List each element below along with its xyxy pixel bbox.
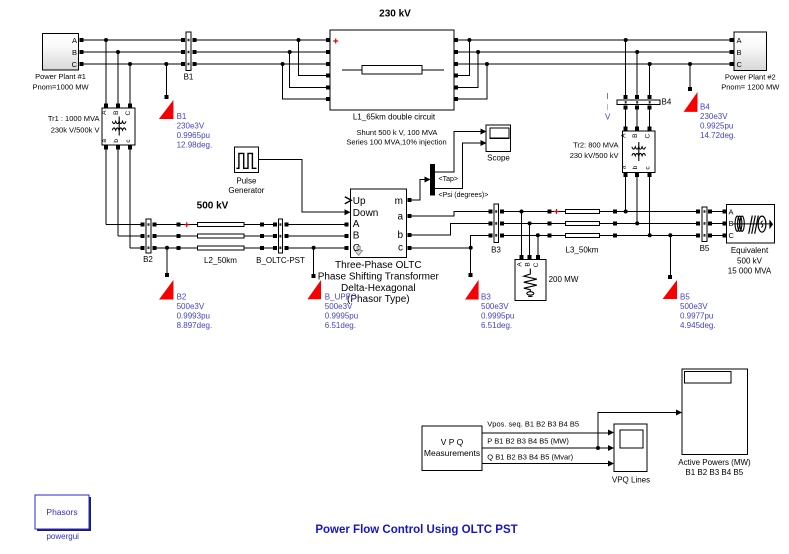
svg-text:L3_50km: L3_50km: [566, 245, 599, 254]
svg-text:b: b: [632, 165, 639, 169]
svg-text:4.945deg.: 4.945deg.: [680, 321, 716, 330]
svg-text:B: B: [729, 219, 734, 228]
svg-text:Three-Phase OLTC: Three-Phase OLTC: [335, 260, 422, 271]
svg-text:Measurements: Measurements: [424, 448, 480, 458]
svg-text:230 kV/500 kV: 230 kV/500 kV: [570, 151, 619, 160]
svg-text:500e3V: 500e3V: [177, 302, 205, 311]
svg-text:A: A: [729, 207, 734, 216]
svg-text:0.9995pu: 0.9995pu: [325, 311, 358, 320]
svg-text:b: b: [113, 139, 120, 143]
svg-text:Shunt 500 k V, 100 MVA: Shunt 500 k V, 100 MVA: [357, 128, 438, 137]
svg-text:A: A: [517, 262, 524, 267]
svg-text:B: B: [737, 48, 742, 57]
svg-text:230e3V: 230e3V: [177, 121, 205, 130]
svg-text:500 kV: 500 kV: [737, 256, 763, 265]
svg-text:V: V: [605, 113, 611, 122]
svg-text:Scope: Scope: [487, 154, 510, 163]
svg-text:A: A: [72, 36, 77, 45]
svg-text:Phase Shifting Transformer: Phase Shifting Transformer: [318, 272, 440, 283]
svg-text:c: c: [398, 243, 403, 254]
svg-text:B2: B2: [177, 292, 187, 301]
svg-text:B4: B4: [700, 102, 710, 111]
svg-text:14.72deg.: 14.72deg.: [700, 131, 736, 140]
svg-text:500e3V: 500e3V: [325, 302, 353, 311]
svg-text:0.9977pu: 0.9977pu: [680, 311, 713, 320]
svg-text:B1 B2 B3 B4 B5: B1 B2 B3 B4 B5: [685, 468, 743, 477]
svg-text:B5: B5: [700, 244, 710, 253]
svg-text:0.9965pu: 0.9965pu: [177, 131, 210, 140]
svg-text:500e3V: 500e3V: [481, 302, 509, 311]
svg-text:B: B: [353, 231, 360, 242]
svg-text:B_UPFC: B_UPFC: [325, 292, 357, 301]
svg-text:C: C: [729, 231, 735, 240]
svg-text:Power Plant #2: Power Plant #2: [725, 72, 776, 81]
svg-text:A: A: [101, 110, 108, 115]
svg-text:B3: B3: [491, 245, 501, 254]
svg-text:A: A: [621, 133, 628, 138]
svg-text:0.9993pu: 0.9993pu: [177, 311, 210, 320]
svg-text:L1_65km double circuit: L1_65km double circuit: [353, 112, 436, 121]
svg-text:<Psi (degrees)>: <Psi (degrees)>: [439, 192, 489, 199]
svg-text:200 MW: 200 MW: [549, 275, 579, 284]
svg-text:Power Plant #1: Power Plant #1: [35, 72, 86, 81]
svg-text:C: C: [737, 60, 743, 69]
svg-text:15 000 MVA: 15 000 MVA: [728, 267, 772, 276]
svg-text:500 kV: 500 kV: [197, 201, 229, 212]
svg-text:C: C: [125, 111, 132, 116]
svg-text:C: C: [353, 243, 360, 254]
svg-text:b: b: [397, 230, 403, 241]
svg-text:Generator: Generator: [228, 186, 264, 195]
svg-text:Phasors: Phasors: [46, 507, 77, 517]
svg-text:Up: Up: [353, 196, 366, 207]
svg-text:C: C: [645, 134, 652, 139]
svg-text:Pnom=1000 MW: Pnom=1000 MW: [32, 83, 89, 92]
svg-text:Vpos. seq. B1 B2 B3 B4 B5: Vpos. seq. B1 B2 B3 B4 B5: [487, 419, 579, 428]
svg-text:B5: B5: [680, 292, 690, 301]
svg-text:B3: B3: [481, 292, 491, 301]
svg-text:m: m: [395, 196, 403, 207]
svg-text:B: B: [113, 111, 120, 115]
svg-text:Pulse: Pulse: [236, 177, 257, 186]
svg-text:B2: B2: [143, 255, 153, 264]
svg-text:6.51deg.: 6.51deg.: [325, 321, 356, 330]
svg-text:V P Q: V P Q: [441, 437, 464, 447]
svg-text:Q B1 B2 B3 B4 B5 (Mvar): Q B1 B2 B3 B4 B5 (Mvar): [487, 453, 573, 462]
svg-text:(Phasor Type): (Phasor Type): [347, 294, 410, 305]
svg-text:B1: B1: [177, 112, 187, 121]
svg-text:0.9925pu: 0.9925pu: [700, 121, 733, 130]
svg-text:Tr1 : 1000 MVA: Tr1 : 1000 MVA: [48, 114, 100, 123]
svg-text:8.897deg.: 8.897deg.: [177, 321, 213, 330]
svg-text:a: a: [101, 139, 108, 143]
svg-text:I: I: [606, 103, 608, 112]
svg-text:0.9995pu: 0.9995pu: [481, 311, 514, 320]
svg-text:Power Flow Control Using OLTC: Power Flow Control Using OLTC PST: [315, 524, 517, 536]
svg-text:B4: B4: [662, 98, 672, 107]
svg-text:A: A: [737, 36, 742, 45]
svg-text:230e3V: 230e3V: [700, 112, 728, 121]
svg-text:Down: Down: [353, 208, 379, 219]
svg-text:B: B: [525, 262, 532, 266]
svg-text:B: B: [632, 134, 639, 138]
svg-text:Equivalent: Equivalent: [731, 246, 769, 255]
svg-text:6.51deg.: 6.51deg.: [481, 321, 512, 330]
svg-text:Pnom= 1200 MW: Pnom= 1200 MW: [721, 82, 780, 91]
svg-text:Series 100 MVA,10% injection: Series 100 MVA,10% injection: [346, 138, 446, 147]
svg-text:500e3V: 500e3V: [680, 302, 708, 311]
svg-text:C: C: [72, 60, 78, 69]
svg-text:powergui: powergui: [46, 532, 79, 541]
svg-text:VPQ Lines: VPQ Lines: [612, 476, 650, 485]
svg-text:a: a: [397, 211, 403, 222]
svg-text:C: C: [533, 262, 540, 267]
svg-text:P B1 B2 B3 B4 B5 (MW): P B1 B2 B3 B4 B5 (MW): [487, 436, 569, 445]
svg-text:B: B: [72, 48, 77, 57]
svg-text:B_OLTC-PST: B_OLTC-PST: [256, 256, 305, 265]
svg-text:230 kV: 230 kV: [379, 9, 411, 20]
svg-text:a: a: [621, 165, 628, 169]
svg-text:12.98deg.: 12.98deg.: [177, 140, 213, 149]
svg-text:A: A: [353, 219, 360, 230]
svg-text:Tr2: 800 MVA: Tr2: 800 MVA: [573, 140, 618, 149]
svg-text:I: I: [606, 92, 608, 101]
svg-text:L2_50km: L2_50km: [204, 256, 237, 265]
svg-text:<Tap>: <Tap>: [439, 176, 458, 183]
svg-text:230k V/500k V: 230k V/500k V: [51, 125, 100, 134]
svg-text:Active Powers (MW): Active Powers (MW): [678, 458, 751, 467]
svg-text:B1: B1: [184, 72, 194, 81]
